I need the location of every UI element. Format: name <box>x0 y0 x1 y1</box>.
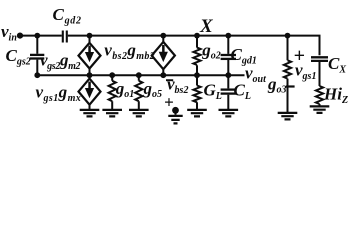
svg-text:+: + <box>164 93 174 112</box>
svg-text:go2: go2 <box>201 41 221 62</box>
svg-text:vgs1gmx: vgs1gmx <box>36 83 81 105</box>
svg-text:X: X <box>199 16 214 37</box>
svg-text:go1: go1 <box>115 79 135 100</box>
svg-text:vgs1: vgs1 <box>295 61 316 83</box>
svg-text:Cgd1: Cgd1 <box>231 45 257 67</box>
svg-text:vbs2gmb2: vbs2gmb2 <box>104 41 155 63</box>
svg-text:vgs2gm2: vgs2gm2 <box>40 51 81 73</box>
svg-text:GL: GL <box>204 81 222 103</box>
svg-text:vout: vout <box>245 64 267 86</box>
svg-text:CX: CX <box>328 54 346 76</box>
svg-text:CL: CL <box>234 81 251 103</box>
svg-text:Cgs2: Cgs2 <box>6 46 31 67</box>
svg-text:go5: go5 <box>143 79 163 100</box>
svg-text:HiZ: HiZ <box>323 85 348 107</box>
svg-text:vin: vin <box>1 22 17 44</box>
svg-text:Cgd2: Cgd2 <box>53 5 82 27</box>
